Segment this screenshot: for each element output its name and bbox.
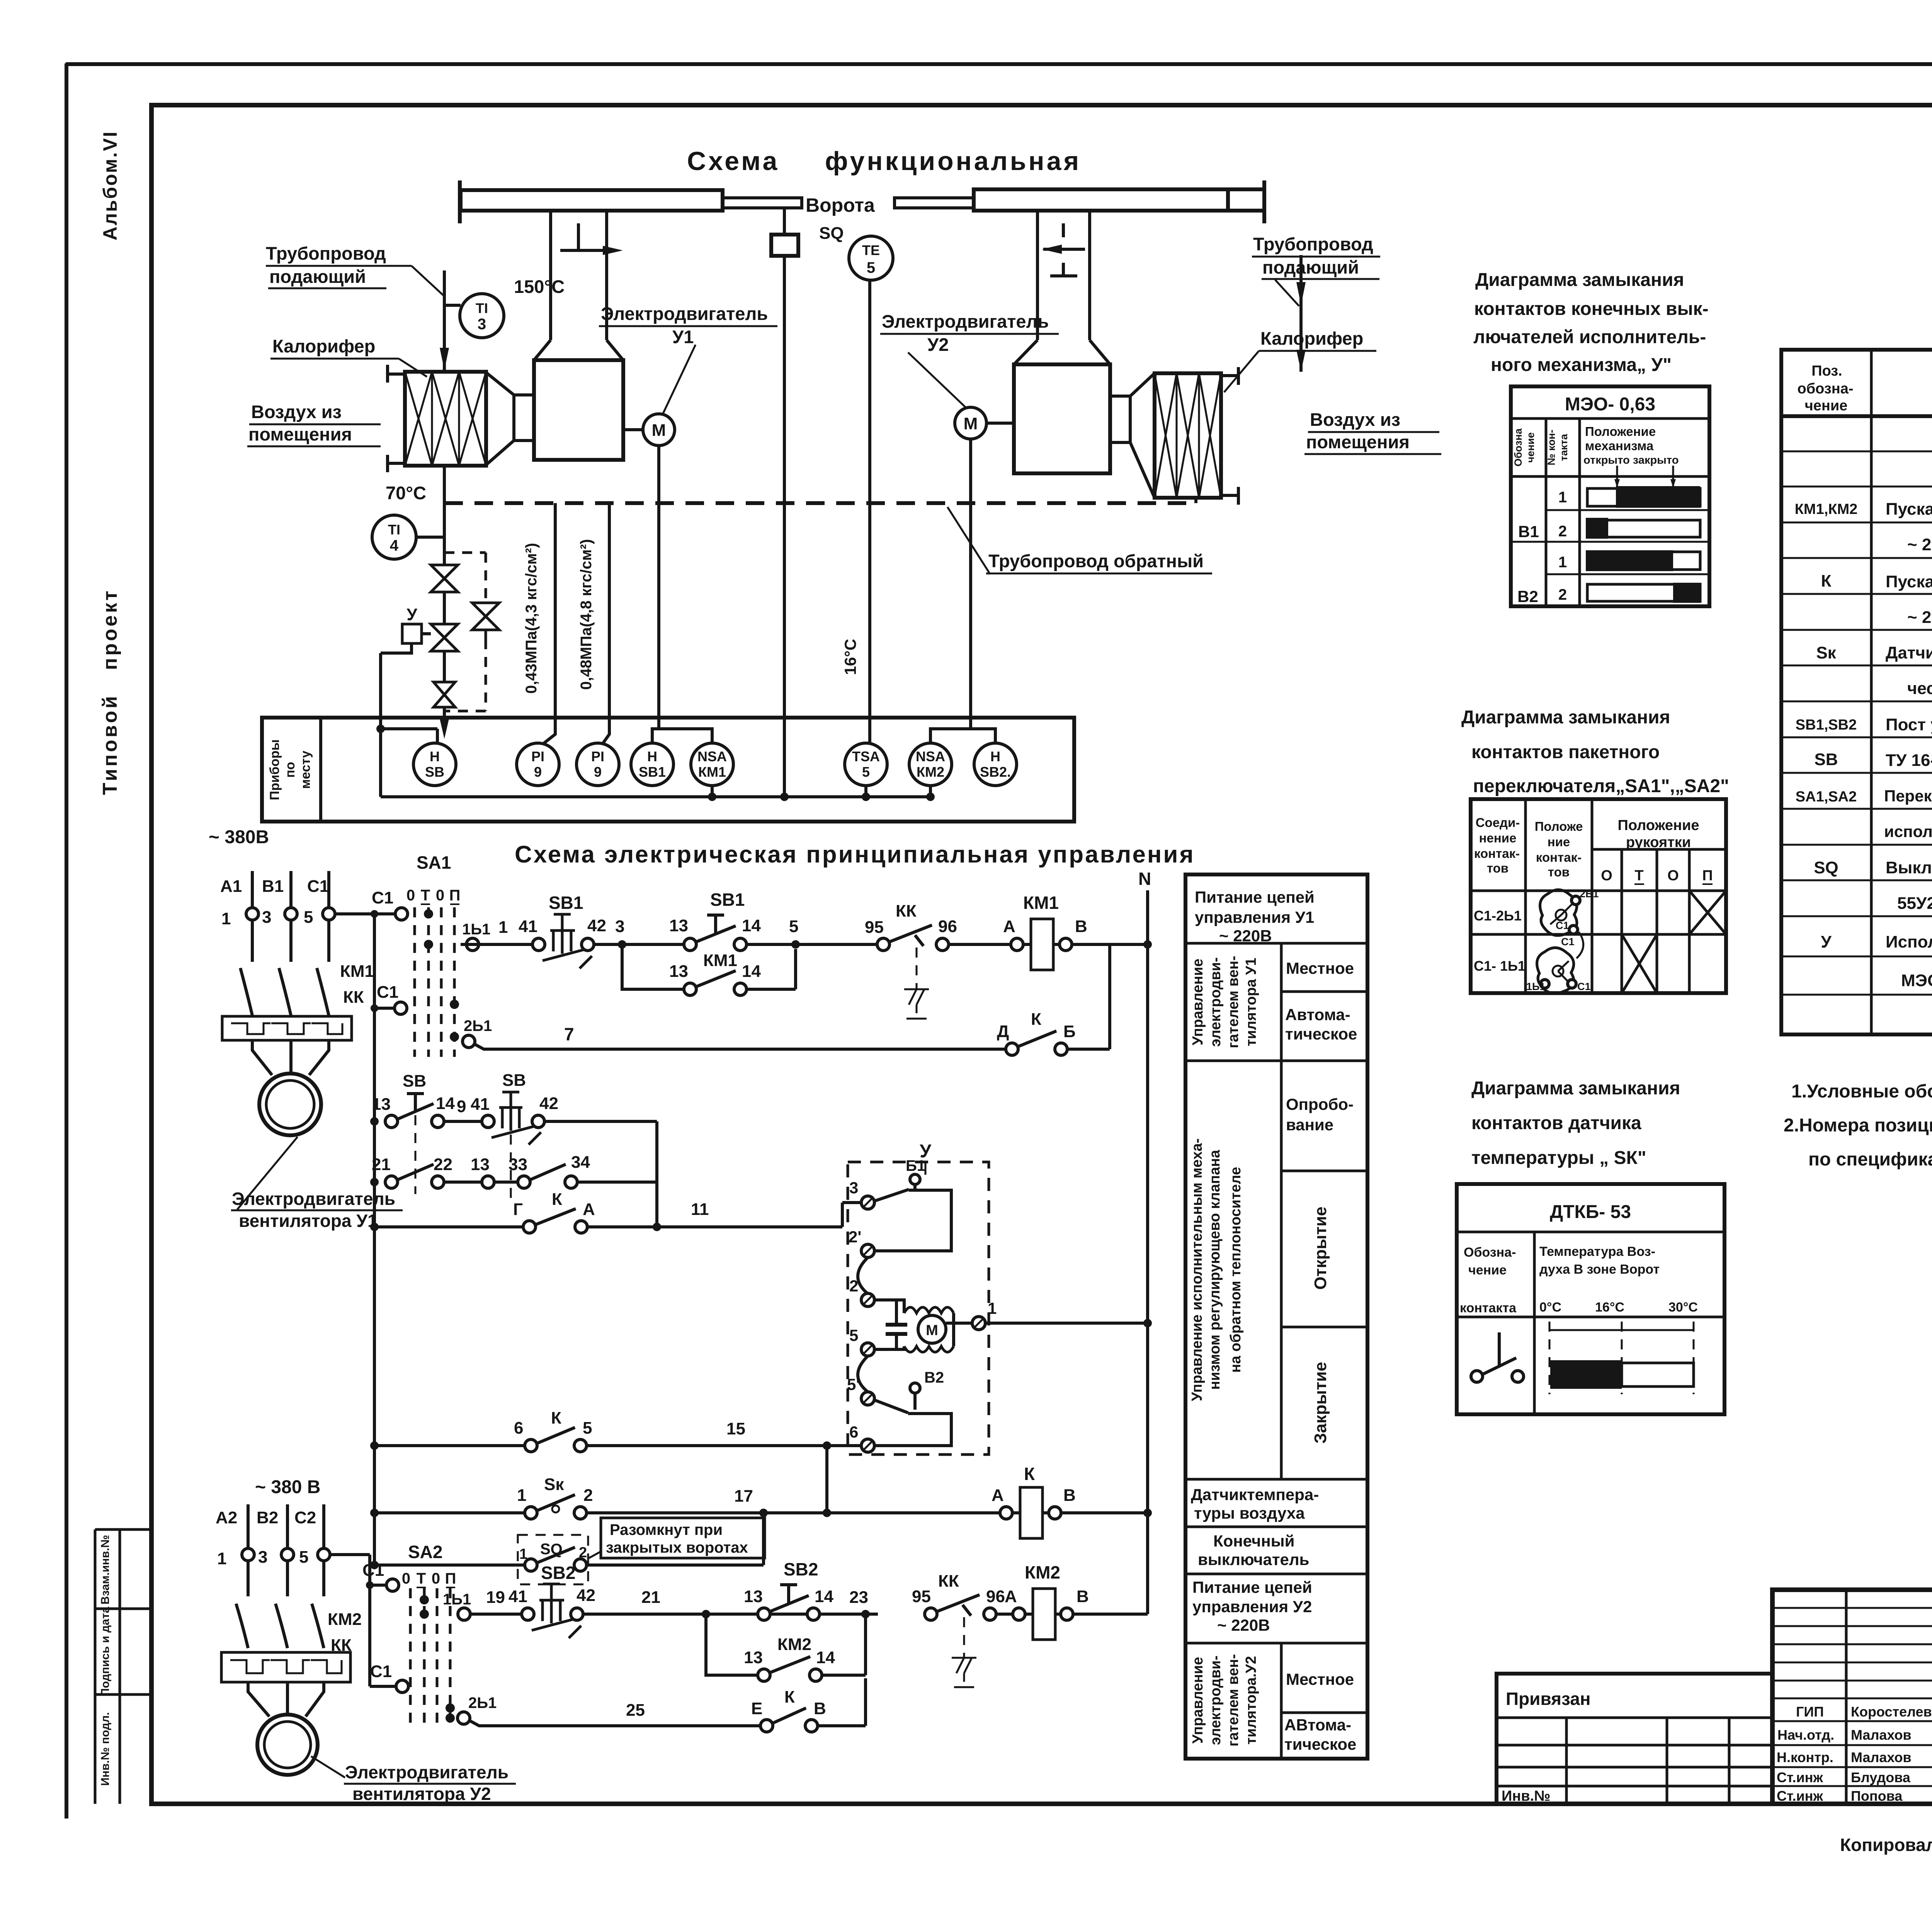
svg-text:Переключатель пакетный ППа-10: Переключатель пакетный ППа-10|Н2 У356Б	[1884, 787, 1932, 805]
meo bar b2-1	[1587, 552, 1700, 570]
contact SB1 break	[532, 938, 545, 951]
svg-text:В: В	[1063, 1486, 1076, 1505]
meo table frame	[1511, 386, 1709, 606]
dtkb scale dashed	[1549, 1322, 1694, 1394]
motor1 sense wire	[657, 446, 660, 729]
DTKB DIAGRAM	[1457, 1078, 1725, 1414]
svg-text:лючателей исполнитель-: лючателей исполнитель-	[1473, 327, 1706, 347]
terminal 3	[861, 1196, 874, 1209]
svg-text:7: 7	[564, 1024, 574, 1044]
svg-text:Местное: Местное	[1286, 959, 1354, 977]
svg-text:41: 41	[519, 917, 537, 936]
svg-text:SВ1: SВ1	[639, 764, 666, 780]
thermal relay KK1 box	[222, 1016, 352, 1040]
svg-text:1: 1	[1558, 554, 1567, 571]
instrument H SB	[413, 743, 456, 786]
svg-text:Опробо-: Опробо-	[1286, 1095, 1354, 1113]
svg-text:2Ь1: 2Ь1	[468, 1694, 497, 1711]
instrument NSA KM2	[909, 743, 952, 786]
svg-text:Датчиктемпера-: Датчиктемпера-	[1191, 1485, 1319, 1504]
sa X mark row2	[1622, 934, 1657, 993]
svg-text:0: 0	[406, 887, 415, 904]
svg-text:С1: С1	[1556, 920, 1569, 931]
svg-text:В2: В2	[257, 1508, 278, 1527]
svg-text:Выключатель конечный ВП 16Е 2: Выключатель конечный ВП 16Е 23А 131-	[1886, 858, 1932, 877]
main title block frame	[1772, 1590, 1932, 1804]
svg-text:Воздух из: Воздух из	[251, 401, 342, 422]
svg-text:К: К	[1024, 1464, 1035, 1484]
svg-text:такта: такта	[1558, 434, 1570, 461]
svg-text:КК: КК	[343, 988, 364, 1007]
meo row lines	[1511, 510, 1709, 574]
thermometer T1-3	[460, 294, 504, 338]
gate right rod	[895, 198, 974, 208]
KM1 holding bypass	[622, 944, 685, 989]
svg-text:Нач.отд.: Нач.отд.	[1777, 1727, 1834, 1743]
fan2 cone	[1130, 373, 1155, 498]
supply pipe 2	[1299, 255, 1303, 372]
svg-text:Управление исполнительным меха: Управление исполнительным меха-	[1189, 1138, 1205, 1401]
svg-text:1: 1	[519, 1546, 527, 1562]
wire 15 to terminal 6	[587, 1444, 861, 1447]
svg-text:Ст.инж: Ст.инж	[1777, 1788, 1823, 1804]
svg-text:16°С: 16°С	[1595, 1300, 1624, 1315]
phase terminals	[246, 908, 259, 920]
contact SB2 make	[758, 1608, 770, 1620]
svg-text:Т: Т	[1634, 868, 1643, 884]
svg-text:ного механизма„ У": ного механизма„ У"	[1491, 355, 1672, 375]
svg-text:Трубопровод: Трубопровод	[266, 243, 386, 264]
svg-text:Н.контр.: Н.контр.	[1777, 1749, 1833, 1765]
svg-text:Попова: Попова	[1851, 1788, 1903, 1804]
svg-text:Управление: Управление	[1190, 1657, 1206, 1744]
rung 7 wire	[474, 1044, 1007, 1049]
node 1L1	[466, 938, 479, 951]
dtkb bar black	[1550, 1360, 1622, 1389]
svg-text:Положение: Положение	[1618, 817, 1699, 834]
svg-text:5: 5	[583, 1419, 592, 1438]
svg-text:ТУ 16-642.006-83: ТУ 16-642.006-83	[1886, 751, 1932, 770]
strip bottom bus	[381, 795, 930, 798]
svg-text:КМ1: КМ1	[1023, 893, 1059, 913]
svg-text:Пускатель магнитный ПМЕ- 051,: Пускатель магнитный ПМЕ- 051, с катушкой	[1886, 572, 1932, 591]
rung D wire	[996, 1613, 1014, 1616]
svg-text:К: К	[1821, 572, 1832, 590]
instrument strip box	[262, 718, 1074, 822]
signature columns	[1846, 1590, 1932, 1804]
svg-text:№ кон-: № кон-	[1546, 430, 1557, 466]
svg-text:14: 14	[815, 1587, 833, 1606]
bus dots	[370, 1117, 379, 1126]
svg-text:SВ1: SВ1	[710, 890, 745, 910]
svg-text:АВтома-: АВтома-	[1284, 1716, 1351, 1734]
svg-text:55У21,~220В, ТУ16-526, 486-81: 55У21,~220В, ТУ16-526, 486-81	[1897, 894, 1932, 913]
terminal 2	[861, 1293, 874, 1307]
svg-text:~ 220В: ~ 220В	[1219, 927, 1272, 945]
meo bar b2-2	[1587, 584, 1700, 601]
mechanical links dashed	[415, 1115, 511, 1198]
svg-text:температуры „ SК": температуры „ SК"	[1471, 1148, 1646, 1168]
actuator dashed box	[848, 1162, 989, 1455]
FUNCTIONAL DIAGRAM	[247, 146, 1441, 822]
svg-text:3: 3	[478, 316, 486, 333]
svg-text:~ 220В: ~ 220В	[1217, 1616, 1270, 1634]
svg-text:14: 14	[742, 916, 761, 935]
svg-text:С1: С1	[377, 983, 398, 1002]
rung SB lower	[385, 1176, 398, 1188]
svg-text:Разомкнут при: Разомкнут при	[610, 1521, 723, 1538]
svg-text:1: 1	[517, 1486, 526, 1505]
svg-text:3: 3	[615, 917, 624, 936]
svg-text:по спецификации см. альбом XI: по спецификации см. альбом XI АП.СО.	[1808, 1149, 1932, 1170]
svg-text:Привязан: Привязан	[1506, 1689, 1591, 1709]
FUNCTION DESCRIPTION TABLE	[1185, 874, 1367, 1759]
contactor coil KM1	[1031, 919, 1053, 970]
svg-text:Электродвигатель: Электродвигатель	[345, 1762, 509, 1782]
left duct	[551, 210, 607, 340]
svg-text:11: 11	[691, 1200, 709, 1219]
pipe	[443, 592, 446, 624]
svg-text:N: N	[1138, 869, 1151, 889]
bypass branch	[444, 553, 486, 711]
svg-text:исполнение IV,~ 220В, ОСТ 16,: исполнение IV,~ 220В, ОСТ 16,0,526, 001-…	[1884, 822, 1932, 840]
svg-text:5: 5	[849, 1326, 858, 1344]
svg-text:95: 95	[865, 918, 884, 937]
svg-text:22: 22	[434, 1155, 452, 1174]
svg-text:низмом регулирующево клапана: низмом регулирующево клапана	[1207, 1150, 1223, 1390]
fan2 casing	[1014, 364, 1110, 473]
svg-text:Коростелев: Коростелев	[1851, 1704, 1932, 1720]
svg-text:Малахов: Малахов	[1851, 1727, 1912, 1743]
left graph boxes	[95, 1529, 151, 1804]
svg-text:~ 220В, 50Гц: ~ 220В, 50Гц	[1907, 535, 1932, 554]
contactor coil KM2	[1033, 1589, 1055, 1640]
temperature contact SK	[537, 1495, 575, 1511]
C2 tap wire 1	[330, 1555, 386, 1686]
svg-text:У2: У2	[927, 334, 949, 355]
meo bar b1-2	[1587, 520, 1700, 537]
svg-text:Диаграмма замыкания: Диаграмма замыкания	[1471, 1078, 1680, 1099]
pipe below heater1	[443, 466, 446, 503]
motor2 sense wire	[969, 439, 972, 729]
ELECTRICAL SCHEMATIC Y2	[216, 1477, 1148, 1804]
gate left rod	[723, 198, 802, 208]
svg-text:2Ь1: 2Ь1	[1580, 888, 1599, 900]
pipe to strip	[443, 707, 446, 726]
svg-text:Г: Г	[513, 1200, 523, 1219]
sa rotary diagram top	[1540, 890, 1577, 935]
heater1 cells	[405, 372, 486, 466]
svg-text:С1- 1Ь1: С1- 1Ь1	[1474, 958, 1526, 974]
KM2 holding bypass	[706, 1614, 759, 1675]
heater1 box	[405, 372, 486, 466]
thermal relay KK2 box	[221, 1652, 350, 1682]
svg-text:ние: ние	[1548, 835, 1570, 849]
gate right tick	[1262, 180, 1266, 223]
svg-text:У: У	[1821, 932, 1832, 951]
svg-text:П: П	[449, 887, 461, 904]
svg-text:Трубопровод обратный: Трубопровод обратный	[988, 551, 1204, 571]
svg-text:ТSА: ТSА	[852, 749, 880, 764]
svg-text:1: 1	[498, 918, 508, 937]
svg-text:3: 3	[258, 1548, 267, 1567]
svg-text:Приборы: Приборы	[267, 739, 282, 800]
motor fan Y2	[257, 1715, 318, 1775]
sa X mark row1	[1689, 891, 1726, 934]
svg-text:Взам.инв.№: Взам.инв.№	[99, 1535, 112, 1604]
fan2 neck	[1110, 396, 1130, 442]
heater2 box	[1155, 373, 1221, 498]
svg-text:КМ1: КМ1	[698, 764, 726, 780]
svg-text:21: 21	[372, 1155, 391, 1174]
svg-text:В2: В2	[924, 1369, 944, 1386]
rung A wire	[461, 943, 533, 946]
svg-text:выключатель: выключатель	[1198, 1550, 1309, 1569]
svg-text:1.Условные обозначения выполне: 1.Условные обозначения выполнены по ОСТ …	[1791, 1081, 1932, 1102]
svg-text:0,43МПа(4,3 кгс/см²): 0,43МПа(4,3 кгс/см²)	[523, 543, 540, 694]
svg-text:на обратном теплоносителе: на обратном теплоносителе	[1228, 1167, 1244, 1373]
svg-text:нение: нение	[1479, 831, 1517, 845]
svg-text:3: 3	[262, 908, 271, 927]
svg-text:1: 1	[217, 1549, 226, 1568]
svg-text:закрытых воротах: закрытых воротах	[606, 1539, 748, 1556]
svg-text:контак-: контак-	[1536, 850, 1582, 864]
svg-text:2.Номера позиций приборов соот: 2.Номера позиций приборов соответствуют …	[1784, 1115, 1932, 1136]
svg-text:Местное: Местное	[1286, 1670, 1354, 1688]
svg-text:КК: КК	[938, 1572, 959, 1591]
svg-text:туры воздуха: туры воздуха	[1194, 1504, 1305, 1522]
svg-text:150°С: 150°С	[514, 276, 565, 297]
svg-text:Положение: Положение	[1585, 424, 1656, 439]
svg-text:5: 5	[862, 764, 870, 780]
terminal 1	[972, 1317, 985, 1330]
phase wires	[252, 871, 329, 962]
svg-text:Д: Д	[997, 1022, 1009, 1041]
thermometer T1-4	[372, 515, 416, 559]
svg-text:70°С: 70°С	[386, 483, 426, 503]
svg-text:месту: месту	[298, 750, 313, 789]
actuator motor M	[918, 1315, 946, 1343]
SA DIAGRAM	[1461, 707, 1729, 994]
bypass valve	[472, 603, 499, 630]
dtkb table frame	[1457, 1184, 1725, 1414]
phase wires	[248, 1504, 324, 1596]
ELECTRICAL SCHEMATIC Y1	[209, 827, 1195, 1614]
svg-text:1Ь1: 1Ь1	[1526, 981, 1545, 992]
motor winding top	[904, 1307, 954, 1313]
svg-text:41: 41	[471, 1095, 490, 1114]
svg-text:5: 5	[789, 917, 798, 936]
svg-text:ТI: ТI	[476, 300, 488, 316]
terminal 5p	[861, 1392, 874, 1405]
svg-text:РI: РI	[591, 749, 604, 764]
svg-text:SА2: SА2	[408, 1542, 442, 1562]
svg-text:духа В зоне Ворот: духа В зоне Ворот	[1539, 1262, 1660, 1277]
svg-text:2: 2	[1558, 523, 1567, 540]
svg-text:NSА: NSА	[916, 749, 945, 764]
svg-text:Соеди-: Соеди-	[1476, 815, 1520, 830]
svg-text:подающий: подающий	[269, 266, 366, 287]
svg-text:КМ1: КМ1	[703, 951, 737, 970]
svg-text:34: 34	[571, 1153, 590, 1172]
svg-text:Альбом.VI: Альбом.VI	[99, 131, 121, 241]
svg-text:управления У2: управления У2	[1192, 1597, 1312, 1616]
rung 15 contact 6 K 5	[370, 1441, 379, 1450]
svg-text:4: 4	[390, 537, 399, 554]
phase terminals	[242, 1548, 254, 1561]
svg-text:Электродвигатель: Электродвигатель	[882, 311, 1049, 332]
motor fan Y1	[259, 1073, 321, 1135]
supply pipe 1	[443, 270, 446, 370]
motor M2	[955, 407, 986, 439]
svg-text:Автома-: Автома-	[1285, 1005, 1350, 1024]
svg-text:Конечный: Конечный	[1213, 1532, 1294, 1550]
svg-text:SQ: SQ	[1814, 858, 1838, 877]
svg-text:К: К	[1031, 1010, 1041, 1029]
svg-text:Обозна: Обозна	[1512, 428, 1524, 467]
fan1 motor link	[623, 428, 643, 431]
rung A wire	[594, 943, 684, 946]
column line	[1280, 943, 1283, 1759]
svg-text:электродви-: электродви-	[1207, 957, 1224, 1047]
svg-text:5: 5	[304, 908, 313, 927]
svg-text:Б1: Б1	[906, 1157, 925, 1174]
svg-text:контактов конечных вык-: контактов конечных вык-	[1474, 299, 1709, 319]
svg-text:по: по	[283, 762, 298, 777]
svg-text:переключателя„SА1",„SА2": переключателя„SА1",„SА2"	[1473, 776, 1729, 796]
svg-text:13: 13	[744, 1587, 763, 1606]
svg-text:17: 17	[734, 1487, 753, 1506]
svg-text:14: 14	[816, 1648, 835, 1667]
svg-text:96: 96	[938, 917, 957, 936]
svg-text:Ст.инж: Ст.инж	[1777, 1769, 1823, 1785]
sheet edge left	[65, 63, 68, 1819]
meo ticks	[1617, 466, 1673, 486]
svg-text:SВ: SВ	[403, 1072, 426, 1090]
svg-text:30°С: 30°С	[1668, 1300, 1698, 1315]
svg-text:Типовой проект: Типовой проект	[99, 589, 121, 795]
svg-text:9: 9	[457, 1097, 466, 1116]
svg-text:О: О	[1601, 868, 1612, 884]
svg-text:16°С: 16°С	[841, 639, 859, 675]
SQ dashed box	[518, 1535, 588, 1584]
svg-text:С1-2Ь1: С1-2Ь1	[1474, 908, 1522, 924]
gate left box	[461, 190, 723, 211]
svg-text:6: 6	[849, 1423, 858, 1441]
svg-text:Схема электрическая принципиал: Схема электрическая принципиальная управ…	[515, 841, 1195, 868]
connector to HSB	[381, 729, 437, 743]
svg-text:3: 3	[849, 1179, 858, 1197]
SQ sense wire	[783, 256, 786, 797]
svg-text:обозна-: обозна-	[1797, 381, 1853, 397]
terminal 6	[861, 1439, 874, 1452]
svg-text:42: 42	[539, 1094, 558, 1113]
svg-text:Электродвигатель: Электродвигатель	[232, 1189, 395, 1209]
svg-text:Н: Н	[647, 749, 657, 764]
svg-text:SВ: SВ	[502, 1071, 526, 1090]
C1 terminal 2	[395, 1002, 407, 1014]
svg-text:С1: С1	[362, 1561, 384, 1580]
thermal contact KK	[877, 938, 889, 951]
svg-text:Обозна-: Обозна-	[1464, 1245, 1516, 1260]
svg-text:тов: тов	[1487, 861, 1509, 875]
KM1 main contacts	[240, 968, 329, 1016]
svg-text:Диаграмма замыкания: Диаграмма замыкания	[1475, 270, 1684, 290]
svg-text:гателем вен-: гателем вен-	[1225, 956, 1242, 1048]
table frame	[1185, 874, 1367, 1759]
node 1L1-2	[458, 1608, 470, 1620]
C1 tap wire 1	[335, 912, 396, 915]
fan1 cone	[486, 373, 514, 465]
terminal 2p	[861, 1244, 874, 1257]
actuator sense wire	[381, 643, 412, 797]
svg-text:Sк: Sк	[1816, 643, 1836, 662]
C1 tap wire 2	[374, 1007, 395, 1010]
capacitor	[886, 1325, 907, 1334]
svg-text:Пост управления кнопочный ПК: Пост управления кнопочный ПКЕ 212-2У3	[1886, 715, 1932, 734]
svg-text:А: А	[1003, 917, 1015, 936]
svg-text:чение: чение	[1805, 398, 1848, 414]
instrument PI 9 a	[517, 743, 559, 786]
svg-text:А: А	[1005, 1587, 1017, 1606]
svg-text:SВ1,SВ2: SВ1,SВ2	[1796, 717, 1857, 733]
svg-text:В2: В2	[1517, 587, 1538, 606]
jumper 2p-2	[858, 1257, 868, 1294]
svg-text:15: 15	[726, 1419, 745, 1438]
right duct	[1037, 210, 1090, 340]
svg-text:~ 220В, 50ГЦ, ОСТ 16.0.536.00: ~ 220В, 50ГЦ, ОСТ 16.0.536.001-72	[1907, 608, 1932, 627]
svg-text:С1: С1	[1577, 981, 1591, 992]
instrument TSA 5	[845, 743, 887, 786]
svg-text:Поз.: Поз.	[1811, 363, 1842, 379]
svg-text:21: 21	[641, 1588, 660, 1607]
svg-text:У: У	[406, 605, 417, 624]
svg-text:2: 2	[1558, 586, 1567, 603]
rung SB upper	[385, 1115, 398, 1128]
svg-text:В1: В1	[1518, 522, 1539, 541]
parts frame	[1781, 350, 1932, 1034]
svg-text:NSА: NSА	[697, 749, 727, 764]
valve chain pipe	[443, 503, 446, 565]
svg-text:ческий ДТКБ-53 ТУ25.02.888-75: ческий ДТКБ-53 ТУ25.02.888-75	[1907, 679, 1932, 698]
svg-text:Питание цепей: Питание цепей	[1192, 1578, 1312, 1596]
svg-text:SВ2: SВ2	[541, 1563, 575, 1583]
svg-text:19: 19	[486, 1588, 505, 1607]
limit switch SQ	[783, 208, 786, 235]
svg-text:Т: Т	[417, 1570, 426, 1587]
bracket SB1-KM1	[652, 729, 712, 743]
N bus	[1146, 890, 1149, 1614]
TITLE BLOCK	[1497, 1590, 1932, 1855]
svg-text:Н: Н	[430, 749, 440, 764]
C1 bus	[373, 914, 376, 1008]
fan1 neck	[514, 395, 534, 441]
svg-text:управления У1: управления У1	[1195, 908, 1314, 926]
svg-text:КМ1,КМ2: КМ1,КМ2	[1795, 501, 1858, 517]
svg-text:Питание цепей: Питание цепей	[1195, 888, 1315, 906]
svg-text:рукоятки: рукоятки	[1626, 834, 1691, 851]
svg-text:М: М	[964, 414, 978, 433]
svg-text:вентилятора У2: вентилятора У2	[352, 1784, 491, 1804]
svg-text:95: 95	[912, 1587, 931, 1606]
svg-text:13: 13	[744, 1648, 763, 1667]
svg-text:42: 42	[577, 1586, 595, 1605]
node 2L1	[463, 1035, 475, 1048]
svg-text:SВ: SВ	[1814, 750, 1838, 769]
valve C	[434, 682, 455, 707]
relay coil K rung	[1000, 1507, 1012, 1519]
svg-text:Т: Т	[421, 887, 430, 904]
